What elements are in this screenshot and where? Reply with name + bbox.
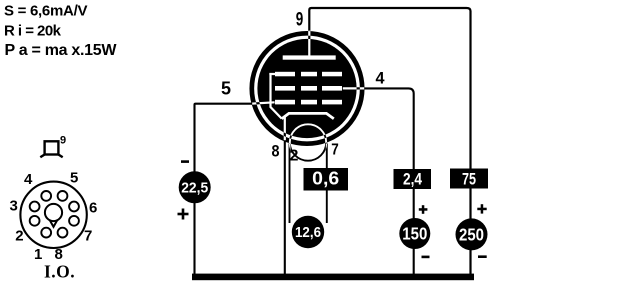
wire anode pin 9 top cap to HT rail [309, 8, 470, 276]
socket pin 7 hole [69, 216, 79, 226]
socket pin 2 hole [30, 216, 40, 226]
wire control grid pin 5 to bias battery [195, 104, 253, 275]
svg-text:6: 6 [89, 199, 97, 216]
socket pin 5 hole [58, 191, 68, 201]
plus of 22,5 [178, 209, 189, 220]
cathode lead to pin 8 (XOR) [284, 116, 286, 140]
chassis bus [192, 274, 474, 281]
plus of 250 [477, 204, 486, 213]
socket base outline [20, 182, 86, 248]
anode top-cap lead (XOR) [308, 30, 310, 57]
svg-text:2,4: 2,4 [403, 170, 422, 189]
minus of 150 [422, 256, 430, 259]
svg-text:3: 3 [10, 198, 18, 215]
svg-text:250: 250 [459, 225, 484, 245]
svg-text:0,6: 0,6 [312, 169, 339, 189]
heater filament loop (XOR) [290, 124, 326, 160]
cathode [282, 113, 334, 118]
top cap symbol [40, 141, 62, 157]
anode supply 250 V [456, 218, 488, 250]
grid g1 dashes [275, 100, 342, 105]
minus of 250 [478, 255, 487, 258]
grid g3 dashes [275, 72, 342, 77]
socket key spigot [45, 204, 62, 227]
wire screen grid pin 4 to screen supply [364, 88, 414, 276]
anode current box 75 [450, 169, 488, 189]
svg-text:75: 75 [462, 170, 476, 189]
tube V1 envelope ring [252, 33, 362, 143]
svg-text:1: 1 [34, 246, 42, 263]
socket pin 3 hole [30, 202, 40, 212]
svg-text:12,6: 12,6 [295, 224, 321, 241]
svg-text:S = 6,6mA/V: S = 6,6mA/V [4, 2, 88, 19]
svg-text:2: 2 [15, 228, 23, 245]
svg-text:P a = ma x.15W: P a = ma x.15W [5, 42, 118, 59]
grid g3 internal tie to cathode [269, 74, 281, 119]
wire cathode pin 8 to chassis bus [284, 140, 286, 276]
grid g2 lead to pin 4 (XOR) [343, 87, 364, 89]
svg-text:5: 5 [70, 169, 78, 186]
svg-text:2: 2 [290, 147, 299, 164]
svg-text:7: 7 [84, 228, 92, 245]
heater current box 0,6 [304, 168, 349, 191]
heater supply 12,6 V [292, 216, 324, 248]
tube V1 inner black disc [257, 39, 356, 138]
svg-text:4: 4 [24, 171, 33, 188]
screen supply 150 V [399, 218, 430, 249]
svg-text:9: 9 [296, 9, 304, 30]
grid bias battery 22,5 V [179, 171, 211, 203]
svg-text:150: 150 [402, 224, 427, 244]
screen current box 2,4 [394, 169, 432, 189]
anode plate bar [283, 55, 336, 59]
socket pin 6 hole [69, 202, 79, 212]
socket pin 4 hole [41, 191, 51, 201]
svg-text:4: 4 [376, 69, 386, 88]
svg-text:9: 9 [60, 135, 66, 147]
minus of 22,5 [181, 160, 189, 163]
svg-text:7: 7 [331, 142, 339, 159]
grid g1 lead to pin 5 (XOR) [252, 102, 274, 103]
svg-text:I.O.: I.O. [44, 262, 75, 282]
svg-text:R i = 20k: R i = 20k [4, 23, 62, 40]
wire heater pin 7 leg [326, 144, 328, 224]
wire heater pin 2 leg [289, 144, 291, 224]
socket pin 1 hole [41, 228, 51, 238]
svg-text:22,5: 22,5 [181, 180, 208, 197]
grid g2 dashes [275, 86, 342, 91]
plus of 150 [419, 205, 428, 214]
socket pin 8 hole [58, 228, 68, 238]
svg-text:8: 8 [272, 142, 280, 161]
svg-text:5: 5 [221, 78, 231, 98]
